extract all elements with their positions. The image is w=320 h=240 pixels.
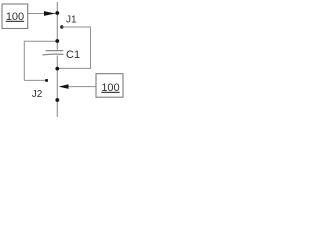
background	[0, 0, 127, 120]
junction dot at J2	[55, 98, 59, 102]
junction dot on main wire at left-loop tap	[55, 39, 59, 43]
wire from P1 to node J1	[28, 13, 57, 15]
right loop wire: bottom horizontal	[57, 67, 91, 69]
main vertical wire (top segment, net to C1)	[56, 2, 58, 50]
svg-text:J2: J2	[32, 89, 43, 100]
svg-text:J1: J1	[66, 14, 77, 25]
arrowhead into main wire (pointing left)	[59, 84, 69, 89]
junction dot at J1	[55, 11, 59, 15]
capacitor C1 top plate	[46, 50, 64, 52]
open wire-end square marker	[45, 79, 48, 82]
left loop wire: left vertical	[23, 41, 25, 81]
right loop wire: top horizontal	[62, 26, 91, 28]
left loop wire: top horizontal	[24, 40, 57, 42]
main vertical wire (bottom segment, C1 to bottom)	[56, 56, 58, 117]
svg-text:C1: C1	[66, 49, 80, 61]
port box P2 (bottom-right "100")	[96, 74, 123, 98]
left loop wire: bottom horizontal	[24, 79, 47, 81]
arrowhead into J1	[44, 11, 55, 16]
svg-text:100: 100	[101, 82, 119, 94]
capacitor C1 bottom plate (curved)	[42, 53, 63, 56]
port box P1 (top-left "100")	[2, 4, 28, 29]
junction dot on main wire at right-loop return	[55, 67, 59, 71]
right loop wire: right vertical	[90, 27, 92, 69]
wire from P2 to node J2	[66, 86, 96, 88]
svg-text:100: 100	[6, 11, 24, 23]
right loop wire: stub dot	[60, 25, 63, 28]
